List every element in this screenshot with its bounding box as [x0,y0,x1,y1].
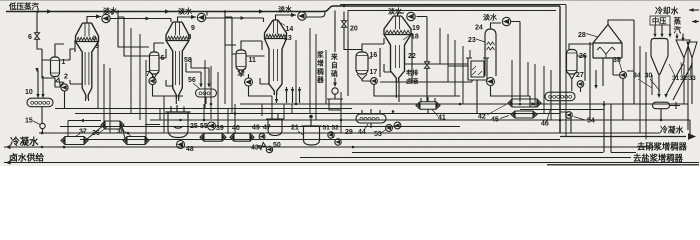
wire unit6 piping [569,20,634,120]
preheater 36 [101,121,124,129]
wire drum60 out [661,102,680,120]
wire E4 lines right [380,33,468,102]
wire drum44 stubs [362,109,380,128]
wire cooling drops [655,25,683,40]
wire valve20 to heater16 [344,27,362,52]
junction dot [660,119,663,122]
arrow from nitrate [333,83,337,88]
wire upper loop inner line [348,11,556,41]
wire E3 vapor to ejector [276,15,297,20]
valve 6 [35,33,40,39]
wire E4 tip [395,82,397,98]
wire label23 leader [476,39,485,42]
circulation pump 12 [245,78,253,86]
wire E1 bottom drops [38,70,89,101]
wire label18 leader [403,35,410,40]
E6 internals [597,47,615,58]
wire header to heater11 [225,12,236,55]
pump 53a [386,125,393,132]
wire E2 vapor to ejector [178,17,197,22]
wire E3 bottom drops [277,87,300,103]
wire label15 leader [33,121,40,125]
wire condensate right heavy [560,136,686,138]
heater column 1 [51,57,60,77]
condensate drum 10 [27,98,53,107]
flask 47 [266,111,284,136]
wire label34-30 leaders [638,79,660,91]
ejector pump 4 [102,14,110,22]
ejector pump 24 [502,17,510,25]
pump 52 [335,139,341,145]
arrow into drum57 [594,85,597,89]
arrow on steam header 2 [165,9,170,13]
evaporator separator E3 internals [266,34,286,37]
valve 22a [425,62,430,68]
valve 2 [55,78,63,86]
wire from-nitrate riser [334,11,336,53]
valve 20 [342,21,347,27]
condensate drum 57 [545,92,575,101]
flash drum 44 [356,114,386,123]
arrow cooling in a [689,8,694,12]
wire risers unit1 gap [98,28,146,140]
wire header y126.5 [60,126,460,128]
wire ejector2 riser [206,12,264,23]
wire heater16 to E4 [362,38,384,58]
wire header y133 [39,132,660,134]
condenser 41 [416,102,440,110]
arrow drop a [653,34,656,38]
wire header to valve20 [343,12,345,21]
wire heater6 to E2 [154,43,166,58]
arrow drop b [660,34,663,38]
wire E6 bottom pipes [603,58,620,86]
wire low-pressure steam main header [6,6,560,12]
heater column 26 [567,50,578,75]
junction dot [210,103,213,106]
wire cool stub a [689,9,699,11]
arrow on steam header 1 [47,9,52,13]
wire header y120 [150,120,690,137]
heater column 11 [236,50,246,70]
wire drum10 drain [41,107,43,124]
exchanger 40b [230,133,254,141]
wire E3 downcomer pump12 [249,74,273,96]
pump 53b [394,122,401,129]
wire header y113.5 [75,113,560,115]
evaporator separator E2 body [166,22,189,99]
wire bottom export line [547,164,699,166]
wire preheater cross connectors [68,121,160,140]
arrow into vessel56 a [199,84,202,88]
junction dot [459,103,462,106]
wire pump2a drop [64,91,66,108]
twin cyclone 33 [687,42,697,58]
wire funnel30 tail [658,74,660,95]
ejector pump 14 [298,12,306,20]
wire label21 leader [298,131,303,135]
wire preheater leaders [76,127,131,136]
wire valve22a down [426,69,428,103]
small feed tank above 21 [327,99,343,110]
heater 11 cone bottom [237,68,245,77]
junction dot [340,119,343,122]
arrow condensate left [6,145,11,149]
wire label28 leader [586,34,598,38]
wire valve6 to heater1 [37,39,55,78]
arrow drum60 b [664,94,667,98]
wire condensate mid join [352,146,660,148]
wire header y108.5 [55,108,352,110]
arrow E1 vapor [96,14,101,18]
wire nitrate slurry line [352,101,636,153]
exchanger 40a [200,133,226,141]
arrow E3 vapor [291,13,296,17]
junction dot [203,119,206,122]
wire label41 leader [432,110,438,117]
dissolver tank 25 [166,105,191,138]
wire E6 vapor line [608,20,634,25]
arrow drop d [675,36,678,40]
wire 44 leaders [364,124,386,133]
wire cyclone tails [666,58,692,104]
arrow on y104 line [532,102,537,106]
arrow into vessel56 b [207,84,210,88]
circulation pump 7 [149,77,156,84]
pump 51 [328,132,334,138]
pump 50 [266,146,272,152]
arrow brine left [6,160,11,164]
junction dot [603,103,606,106]
junction dot [352,146,355,149]
arrow drop c [668,34,671,38]
wire salt slurry line [300,157,631,159]
wire drum56 drain [205,97,207,104]
wire brine supply header [4,162,699,164]
wire E1 vapor to ejector [87,17,101,24]
arrow E3 drop c [298,89,301,93]
wire loop drop outer [559,6,561,133]
wire risers unit2 gap [205,45,232,127]
pump under column 23 [487,78,495,86]
transfer pump 39 [208,122,216,130]
junction dot [41,132,44,135]
evaporator separator E4 internals [385,30,410,33]
evaporator separator E1 body [76,23,99,99]
twin cyclone 32 [676,40,690,58]
wire heater11 to E3 [241,41,265,56]
pump 27a [577,81,584,88]
heater 6 cone bottom [151,72,159,80]
box around 中压 [650,16,670,25]
pump 49 [259,134,265,140]
wire sightglass to tank [334,94,336,99]
wire risers unit5 gap [512,60,551,120]
wire risers unit3 gap [296,28,341,133]
junction dot [127,132,130,135]
arrow valve6 down [35,68,38,72]
wire ejector3 out [306,12,325,18]
wire label13 leader [277,23,285,38]
heater 26 cone bottom [568,72,577,91]
wire header y104 [240,104,688,130]
ejector pump 9 [197,13,205,21]
evaporator pentagon E6 [593,25,622,59]
arrow drum60 a [657,94,660,98]
discharge pump 48 [177,141,185,149]
feed box 22 [466,58,489,80]
heater 16 cone bottom [357,74,367,81]
preheater 37 [61,137,88,145]
wire header drop to valve 6 [36,12,38,33]
wire cond41 stubs [421,97,435,114]
condensate drum 56 [196,89,217,97]
wire condensate header left [4,146,352,148]
wire label54 leader [574,117,586,121]
junction dot [295,103,298,106]
arrow E3 drop a [285,89,288,93]
arrow steam in b [692,20,697,24]
pump 34 [620,72,627,79]
wire E2 right drops [186,58,209,87]
wire E4 vapor to ejector [398,13,405,16]
wire box22 drain [412,66,477,114]
wire E1 left downcomer [70,40,75,52]
junction dot [519,103,522,106]
wire label35 leader [618,58,622,71]
wire ejector4 out drop [417,17,428,62]
arrow drop e [681,38,684,42]
stirred tank 21 [302,119,322,146]
wire risers unit4 gap [440,28,470,104]
circulation pump 2a [61,84,68,91]
wire E2 downcomer pump7 [153,74,184,96]
evaporator separator E3 body [265,20,287,95]
wire loop drop inner [340,5,566,137]
wire E5 vapor to ejector [491,23,502,29]
wire E4 west riser [347,40,349,96]
arrow into vessel10 a [36,94,39,98]
arrow into vessel10 b [41,94,44,98]
vacuum cooler funnel 30 [651,39,668,75]
wire E1 column to pump [55,78,82,87]
sight glass circle [332,88,338,94]
wire pump48 leader [186,148,190,150]
wire 42 leaders [487,105,509,119]
wire drum57 drain [560,101,566,112]
condenser 42 [508,99,541,107]
drain valve 15 [40,123,45,128]
arrow E2 vapor [191,15,196,19]
arrow on steam header 3 [259,9,264,13]
evaporator separator E1 internals [77,37,98,40]
pump 54 [566,112,573,119]
arrow preheater feed [80,119,84,122]
wire E2 bottom [176,99,178,104]
wire label31-33 leaders [669,60,692,76]
junction dot [179,119,182,122]
heater column 6 [150,52,160,74]
scan noise overlay [0,0,700,166]
evaporator separator E4 body [384,16,411,82]
condenser 45 [511,111,537,118]
wire from-nitrate drop [334,78,336,85]
junction dot [559,119,562,122]
wire header to heater6 [118,12,149,57]
wire label56 leader [193,83,200,89]
evaporator separator E2 internals [167,36,188,39]
arrow ejector1 line [146,17,151,21]
scan edge top [0,0,700,1]
arrow E3 drop d [275,99,278,103]
angle valve 43 [258,142,266,149]
circulation pump 17 [371,78,378,85]
arrow E3 drop b [291,89,294,93]
junction dot [234,112,237,115]
wire ejector1 riser [110,12,171,23]
right drum 60 [653,102,670,109]
wire valve15 to header [43,129,61,133]
crystallizer column 23 [485,29,496,76]
wire steam stub b [692,21,699,23]
wire ejector5 out [511,22,520,103]
wire risers right [640,42,688,140]
wire pump54 discharge [520,110,604,134]
wire header y139.5 [80,139,560,141]
wire label46 leader [547,106,552,122]
wire risers above flask47 [262,96,292,119]
heater column 16 [356,52,368,74]
arrow ejector2 line [241,16,246,20]
preheater 38 [123,137,149,145]
junction dot [392,110,395,113]
wire risers left of tank25 [160,96,235,134]
wire E4 downcomer [362,48,460,96]
wire heater1 to E1 [55,44,75,60]
junction dot [63,146,66,149]
arrow condensate right [688,133,696,140]
ejector pump 19 [407,12,415,20]
wire unit5 pump out [491,86,531,107]
